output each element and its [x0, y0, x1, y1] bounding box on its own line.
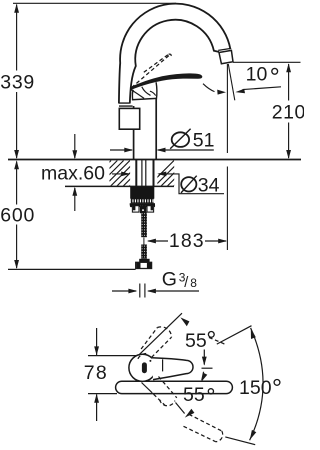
svg-text:339: 339 — [0, 72, 35, 94]
svg-text:150: 150 — [239, 377, 272, 399]
svg-text:G: G — [162, 269, 177, 291]
svg-text:183: 183 — [169, 230, 205, 252]
svg-text:34: 34 — [198, 174, 220, 196]
svg-text:55: 55 — [183, 384, 205, 406]
svg-text:8: 8 — [190, 276, 197, 290]
svg-text:600: 600 — [0, 205, 35, 227]
svg-text:78: 78 — [84, 362, 108, 384]
svg-text:max.60: max.60 — [41, 163, 105, 185]
svg-text:51: 51 — [193, 130, 215, 152]
svg-text:210: 210 — [272, 102, 304, 124]
svg-text:55: 55 — [185, 330, 207, 352]
svg-text:10: 10 — [246, 64, 268, 86]
